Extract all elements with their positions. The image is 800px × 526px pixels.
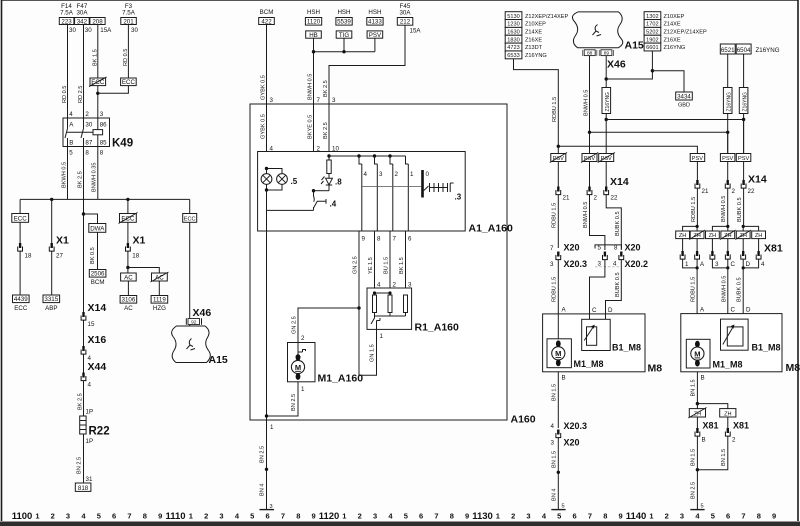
bus B (BNWH): [590, 131, 728, 133]
svg-text:.5: .5: [291, 177, 298, 186]
motor M1_M8: [552, 340, 565, 366]
svg-text:0: 0: [426, 171, 430, 178]
X81 pin 2: [725, 428, 730, 436]
svg-text:Z10XEP: Z10XEP: [525, 22, 546, 28]
svg-text:4: 4: [551, 423, 555, 430]
svg-text:2: 2: [85, 111, 89, 118]
svg-text:BN 1.5: BN 1.5: [552, 384, 558, 401]
variant box ZH (struck): [690, 231, 704, 239]
wire M8 right return: [696, 372, 698, 409]
wire to X14: [727, 162, 729, 181]
svg-text:B: B: [701, 375, 705, 382]
wire branch to AC boxes: [128, 268, 159, 274]
svg-text:M1_A160: M1_A160: [318, 373, 364, 385]
wire branch to DWA: [84, 214, 98, 224]
wire PSV to bus: [374, 38, 376, 52]
wire X16 to X44: [83, 354, 85, 374]
wire HB down to A160: [313, 38, 315, 104]
svg-text:6533: 6533: [507, 53, 519, 59]
wire ECC to X1 pin18: [19, 222, 21, 295]
junction: [126, 266, 129, 269]
svg-text:3: 3: [66, 512, 70, 521]
X81 merge bracket 1: [683, 259, 698, 309]
svg-text:3: 3: [680, 512, 684, 521]
svg-text:Z16XE: Z16XE: [525, 37, 542, 43]
svg-text:1: 1: [380, 333, 384, 340]
svg-text:6: 6: [573, 512, 577, 521]
X1 pin 18: [126, 243, 131, 251]
svg-text:8: 8: [100, 150, 104, 157]
svg-text:BN 4: BN 4: [260, 484, 266, 496]
svg-text:5: 5: [562, 504, 565, 510]
junction motor node: [357, 306, 360, 309]
svg-text:1: 1: [189, 512, 193, 521]
junction: [696, 402, 699, 405]
svg-text:ZH: ZH: [724, 411, 731, 417]
feed box 6521: [720, 44, 735, 54]
svg-text:8: 8: [377, 236, 381, 243]
svg-text:M1_M8: M1_M8: [713, 360, 743, 370]
svg-text:2: 2: [358, 512, 362, 521]
selector contact 3: [375, 156, 378, 231]
wire lamp return long: [266, 210, 268, 420]
svg-text:A15: A15: [625, 40, 644, 52]
svg-text:1100: 1100: [12, 511, 33, 522]
X20 bracket middle: [595, 245, 622, 249]
svg-text:BNWH 0.5: BNWH 0.5: [583, 202, 589, 228]
LED .8: [321, 174, 332, 191]
svg-text:1702: 1702: [646, 22, 658, 28]
svg-text:86: 86: [100, 122, 107, 129]
wire to X14: [557, 162, 559, 188]
svg-text:1: 1: [685, 261, 689, 268]
variant box AC (struck): [152, 273, 168, 281]
svg-text:ZH: ZH: [755, 233, 762, 239]
wire pin7 down: [313, 104, 315, 203]
svg-text:6521: 6521: [721, 47, 735, 54]
svg-text:2506: 2506: [91, 271, 105, 278]
boxed label Z16YNG: [723, 88, 732, 114]
svg-text:1P: 1P: [86, 438, 94, 445]
svg-text:2: 2: [665, 512, 669, 521]
wire table right down: [606, 51, 652, 79]
X14 pin 2: [587, 187, 592, 195]
svg-text:223: 223: [61, 18, 72, 25]
svg-text:3: 3: [408, 282, 412, 289]
svg-text:C: C: [731, 261, 736, 268]
wire pin7 to R1: [389, 231, 391, 295]
recirculation motor box M1_M8: [686, 339, 710, 368]
wire RDBU down: [557, 146, 559, 153]
illumination lamp: [277, 174, 288, 185]
svg-text:PSV: PSV: [553, 156, 564, 162]
destination box 3106: [120, 296, 137, 304]
wire pin to A15: [189, 325, 191, 327]
svg-text:Z16XE: Z16XE: [664, 37, 681, 43]
wire 6504 PSV: [743, 120, 745, 154]
svg-text:3: 3: [526, 512, 530, 521]
svg-text:6601: 6601: [646, 45, 658, 51]
svg-text:HB: HB: [309, 32, 318, 39]
svg-text:1: 1: [342, 512, 346, 521]
wires C D into sensor: [590, 314, 606, 345]
svg-text:R1_A160: R1_A160: [415, 322, 460, 334]
svg-text:RD 0.5: RD 0.5: [123, 49, 129, 66]
svg-text:9: 9: [158, 512, 162, 521]
svg-text:9: 9: [465, 512, 469, 521]
wire K49 pin8 down: [83, 147, 85, 314]
svg-text:1830: 1830: [507, 37, 519, 43]
svg-text:4: 4: [377, 282, 381, 289]
wire X44 to R22: [83, 381, 85, 417]
svg-text:6: 6: [266, 512, 270, 521]
svg-text:Z16YNG: Z16YNG: [756, 47, 780, 54]
svg-text:1: 1: [35, 512, 39, 521]
svg-text:Z16YNG: Z16YNG: [664, 45, 686, 51]
control unit box A160: [250, 104, 507, 420]
svg-text:ECC: ECC: [184, 216, 196, 222]
wire X20 to M8 left pin A: [557, 260, 559, 314]
bottom scan band: [0, 522, 800, 526]
svg-text:85: 85: [100, 140, 107, 147]
svg-text:Z10XEP: Z10XEP: [664, 14, 685, 20]
fuse box 342: [75, 18, 90, 25]
svg-text:C: C: [731, 307, 736, 314]
svg-text:X20: X20: [564, 438, 580, 448]
svg-text:3315: 3315: [44, 296, 58, 303]
svg-text:3: 3: [379, 171, 383, 178]
svg-text:BKYE 0.5: BKYE 0.5: [308, 115, 314, 139]
wire R1 pin1 out: [376, 324, 378, 329]
svg-text:2: 2: [594, 195, 598, 202]
svg-text:3: 3: [551, 440, 555, 447]
svg-text:BN 2.5: BN 2.5: [291, 394, 297, 411]
wire TIG to bus: [343, 38, 345, 52]
svg-text:3: 3: [332, 97, 336, 104]
X46 pin box 92: [186, 318, 201, 324]
svg-text:30: 30: [131, 27, 138, 34]
svg-text:B1_M8: B1_M8: [752, 343, 781, 353]
junction: [696, 468, 699, 471]
wire table to RDBU column: [514, 59, 559, 147]
svg-text:D: D: [746, 261, 751, 268]
svg-text:1230: 1230: [507, 22, 519, 28]
X81 pin B: [695, 428, 700, 436]
svg-text:BN 4: BN 4: [552, 489, 558, 501]
svg-text:4723: 4723: [507, 45, 519, 51]
svg-text:PSV: PSV: [584, 156, 595, 162]
svg-text:7: 7: [434, 512, 438, 521]
selector contact 4: [359, 156, 362, 231]
svg-text:8: 8: [143, 512, 147, 521]
fuse box 208: [90, 18, 105, 25]
svg-text:3: 3: [219, 512, 223, 521]
svg-text:GBD: GBD: [678, 103, 690, 109]
svg-text:3106: 3106: [122, 297, 136, 304]
svg-text:2: 2: [51, 512, 55, 521]
svg-text:.4: .4: [330, 200, 337, 209]
svg-text:21: 21: [702, 188, 709, 195]
svg-text:BK 2.5: BK 2.5: [323, 122, 329, 139]
sensor box B1_M8: [721, 319, 749, 350]
svg-text:PSV: PSV: [722, 156, 733, 162]
selector feed bus: [329, 155, 406, 157]
svg-text:GYBK 0.5: GYBK 0.5: [261, 75, 267, 100]
switch .4: [314, 191, 327, 211]
svg-text:1119: 1119: [153, 297, 166, 304]
wire BNWH down: [589, 132, 591, 153]
lamp return wire: [267, 190, 314, 210]
variant box PSV: [367, 31, 383, 38]
svg-text:BN 1.5: BN 1.5: [691, 449, 697, 466]
svg-text:BK 0.5: BK 0.5: [90, 247, 96, 264]
svg-text:YE 1.5: YE 1.5: [368, 257, 374, 274]
svg-text:30: 30: [85, 27, 92, 34]
svg-text:1: 1: [496, 512, 500, 521]
X81 pin A: [695, 251, 700, 259]
wire AC variant to 1119: [158, 281, 160, 296]
svg-text:3: 3: [373, 512, 377, 521]
wire M8 left return: [557, 372, 559, 428]
variant box PSV (struck): [582, 154, 597, 162]
svg-text:M8: M8: [786, 362, 800, 374]
X1 pin (left): [18, 243, 23, 251]
svg-text:C: C: [592, 307, 597, 314]
wire bus left end down: [19, 199, 21, 213]
feed box 6504: [736, 44, 751, 54]
variant box PSV: [736, 154, 751, 162]
svg-text:BU 1.5: BU 1.5: [384, 257, 390, 274]
svg-text:7: 7: [317, 97, 321, 104]
svg-text:5: 5: [69, 150, 73, 157]
wire to X14: [589, 162, 591, 188]
wire X46 pin88 down: [589, 56, 591, 133]
svg-text:BUBK 0.5: BUBK 0.5: [737, 197, 743, 222]
svg-text:X1: X1: [56, 235, 69, 247]
variant box ECC: [121, 78, 137, 86]
svg-text:BNWH 0.5: BNWH 0.5: [721, 196, 727, 222]
X81 merge bracket 3: [743, 259, 758, 309]
svg-text:3434: 3434: [677, 94, 691, 101]
svg-text:Z16YNG: Z16YNG: [726, 92, 732, 112]
wire bus to ECC right: [127, 199, 129, 213]
svg-text:8: 8: [603, 512, 607, 521]
svg-text:6: 6: [419, 512, 423, 521]
illumination lamp: [261, 174, 272, 185]
svg-text:BK 2.5: BK 2.5: [78, 171, 84, 188]
svg-text:1: 1: [649, 512, 653, 521]
lamp pair bracket bottom: [267, 184, 283, 190]
svg-text:2: 2: [393, 282, 397, 289]
svg-text:RDBU 1.5: RDBU 1.5: [552, 97, 558, 122]
wire X20.2 pin4 to D: [606, 260, 622, 314]
wire pin6 to R1: [405, 231, 407, 295]
svg-text:BN 1.5: BN 1.5: [691, 379, 697, 396]
svg-text:15A: 15A: [100, 27, 112, 34]
svg-text:BNWH 0.5: BNWH 0.5: [584, 90, 590, 116]
wire A160 pin1 to ground: [266, 420, 268, 510]
wire LED to pin2 node: [314, 190, 330, 192]
svg-text:6: 6: [408, 236, 412, 243]
svg-text:X46: X46: [607, 59, 626, 71]
destination box DWA: [89, 224, 106, 233]
variant box TIG: [336, 31, 352, 38]
svg-text:Z14XE: Z14XE: [525, 30, 542, 36]
svg-text:BUBK 0.5: BUBK 0.5: [615, 211, 621, 236]
variant box ECC: [183, 214, 197, 223]
wire K49 pin5 to bus: [67, 147, 69, 200]
variant box PSV: [690, 154, 705, 162]
svg-text:1630: 1630: [507, 30, 519, 36]
svg-text:Z16YNG: Z16YNG: [605, 92, 611, 112]
selector contact 1: [406, 156, 409, 231]
svg-text:5202: 5202: [646, 30, 658, 36]
fuse box 223: [59, 18, 74, 25]
svg-text:8: 8: [757, 512, 761, 521]
wire node to M1: [298, 308, 359, 343]
svg-text:22: 22: [748, 188, 755, 195]
svg-text:X20.3: X20.3: [564, 259, 588, 269]
X44 pin: [81, 373, 86, 381]
X46 pin box 89: [599, 50, 613, 56]
svg-text:GYBK 0.5: GYBK 0.5: [261, 114, 267, 139]
variant box ZH (struck): [721, 231, 735, 239]
svg-text:BN 2.5: BN 2.5: [691, 482, 697, 499]
X20 pin (left): [556, 252, 561, 260]
variant box PSV: [720, 154, 735, 162]
svg-text:3: 3: [550, 261, 554, 268]
wire X14 22 to X20: [606, 195, 621, 250]
R1 resistor 1: [373, 295, 377, 313]
svg-text:9: 9: [312, 512, 316, 521]
svg-text:1902: 1902: [646, 37, 658, 43]
svg-text:422: 422: [261, 18, 272, 25]
svg-text:ECC: ECC: [91, 79, 105, 86]
X14 pin 22: [741, 180, 746, 188]
boxed label Z16YNG: [602, 88, 611, 114]
svg-text:5: 5: [557, 512, 561, 521]
svg-text:ABP: ABP: [45, 305, 57, 312]
svg-text:.3: .3: [455, 193, 462, 202]
X81 pin 3: [710, 251, 715, 259]
svg-text:1: 1: [270, 424, 274, 431]
svg-text:X20: X20: [564, 243, 580, 253]
ground distribution bus: [20, 198, 190, 200]
wire to X14: [743, 162, 745, 181]
X14 pin 21: [695, 180, 700, 188]
component A15 (top cloud): [572, 12, 622, 48]
svg-text:RD 0.5: RD 0.5: [62, 86, 68, 103]
svg-text:D: D: [608, 307, 613, 314]
junction: [265, 468, 268, 471]
wire fuse223 to K49 pin4: [67, 25, 69, 119]
wire X14 21 to X20: [557, 195, 559, 248]
svg-text:.8: .8: [335, 178, 342, 187]
destination box 1119: [151, 296, 168, 304]
svg-text:BNWH 0.35: BNWH 0.35: [92, 162, 98, 192]
svg-text:PSV: PSV: [369, 32, 382, 39]
svg-text:AC: AC: [124, 275, 133, 282]
svg-text:1: 1: [410, 171, 414, 178]
svg-text:5: 5: [404, 512, 408, 521]
svg-text:30A: 30A: [76, 10, 88, 17]
lamp pair bracket top: [267, 169, 283, 174]
junction: [557, 471, 560, 474]
selector contact 2: [390, 156, 393, 231]
svg-text:31: 31: [86, 476, 93, 483]
wire bus to X1 pin27: [51, 199, 53, 295]
junction on BK2.5 wire: [82, 212, 85, 215]
recirculation motor box M1_M8: [547, 339, 571, 368]
wire X14 22 to ZH pair: [743, 188, 745, 226]
svg-text:AC: AC: [124, 305, 133, 312]
svg-text:8: 8: [85, 150, 89, 157]
svg-text:ZH: ZH: [679, 233, 686, 239]
svg-text:ECC: ECC: [121, 216, 135, 223]
variant box ZH (struck): [736, 231, 750, 239]
svg-text:Z16YNG: Z16YNG: [742, 92, 748, 112]
svg-text:ECC: ECC: [122, 79, 136, 86]
svg-text:X44: X44: [88, 361, 107, 373]
svg-text:PSV: PSV: [738, 156, 749, 162]
svg-text:1P: 1P: [86, 409, 94, 416]
wire to ground: [557, 438, 559, 510]
svg-text:8: 8: [296, 512, 300, 521]
svg-text:2: 2: [301, 335, 305, 342]
svg-text:1130: 1130: [472, 511, 493, 522]
variant box PSV (struck): [599, 154, 614, 162]
wire fuse208 to ECC: [97, 25, 99, 79]
svg-text:GN 2.5: GN 2.5: [292, 316, 298, 334]
svg-text:BUBK 0.5: BUBK 0.5: [615, 272, 621, 297]
X14 pin 21: [556, 187, 561, 195]
wire pin3 down: [328, 104, 330, 160]
svg-text:RDBU 1.5: RDBU 1.5: [552, 277, 558, 302]
resistor R22: [80, 416, 86, 434]
wire F45 to A160: [329, 25, 405, 104]
bus A (Z16YNG pair): [606, 119, 743, 121]
svg-text:X81: X81: [733, 421, 749, 431]
svg-text:1: 1: [301, 386, 305, 393]
M1 internal switch: [296, 343, 306, 359]
blower resistor box R1_A160: [367, 288, 412, 329]
wire 6521 down: [727, 54, 729, 154]
ECU variant table left: [505, 12, 568, 59]
svg-text:X20.2: X20.2: [625, 259, 649, 269]
svg-text:4439: 4439: [14, 296, 28, 303]
X14 pin 2: [725, 180, 730, 188]
svg-text:5: 5: [598, 245, 602, 252]
ECU variant table right: [644, 12, 707, 52]
svg-text:BCM: BCM: [260, 9, 274, 16]
svg-text:201: 201: [123, 18, 134, 25]
svg-text:1120: 1120: [307, 19, 321, 26]
svg-text:27: 27: [56, 253, 63, 260]
svg-text:3: 3: [270, 97, 274, 104]
svg-text:BK 1.5: BK 1.5: [93, 49, 99, 66]
wire branch to 3434: [652, 71, 684, 92]
svg-text:4: 4: [364, 171, 368, 178]
heater unit box M8 (right): [681, 314, 782, 372]
svg-text:6: 6: [726, 512, 730, 521]
ground point box 3434: [676, 92, 693, 100]
X81 pin C: [725, 251, 730, 259]
variant box ZH: [720, 409, 736, 417]
svg-text:2: 2: [204, 512, 208, 521]
svg-text:4: 4: [613, 261, 617, 268]
svg-text:Z13DT: Z13DT: [525, 45, 543, 51]
svg-text:ECC: ECC: [14, 305, 28, 312]
